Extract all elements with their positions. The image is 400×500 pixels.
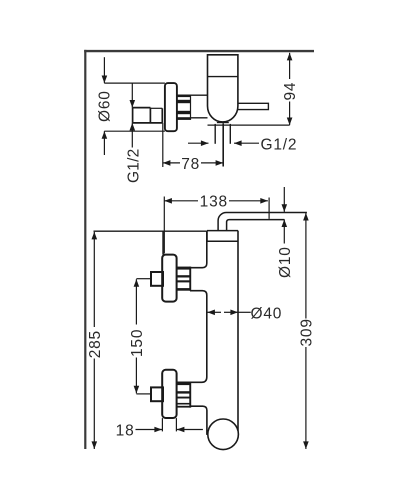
outlet ledge under capsule (top view) — [217, 122, 229, 124]
285 dimension upper arrow — [93, 232, 95, 327]
body top line with 285 extension — [94, 230, 207, 232]
svg-text:Ø60: Ø60 — [97, 90, 114, 122]
309 dimension lower arrow — [305, 347, 307, 449]
body right side outline lower — [190, 406, 207, 435]
G1/2 lower arrow (left, top view) — [131, 123, 133, 148]
94 dimension lower arrow — [289, 102, 291, 126]
lever inner vertical 2 — [161, 108, 163, 123]
G1/2 outlet stub right line (top view) — [229, 124, 231, 144]
lower escutcheon plate (front view) — [162, 370, 176, 418]
150 dimension lower arrow — [135, 358, 137, 394]
94 dimension bottom extension line — [208, 124, 290, 126]
Ø10 dimension upper arrow — [283, 187, 285, 212]
78 dimension line right arrow — [201, 162, 223, 164]
svg-text:18: 18 — [116, 422, 135, 439]
outlet centre extension line (top view) — [222, 123, 224, 166]
column cap line — [207, 240, 238, 242]
lever inner vertical 1 — [149, 108, 151, 123]
shower pipe inner contour — [227, 220, 285, 231]
G1/2 right arrow pair (top view) — [188, 142, 209, 144]
138 dimension right extension line — [268, 198, 270, 219]
150 dimension upper arrow — [135, 279, 137, 324]
body right side outline middle — [177, 291, 207, 383]
138 dimension line left arrow — [164, 200, 198, 202]
lever left end — [132, 108, 134, 123]
lower cartridge ribs (front view) — [177, 382, 191, 408]
285 dimension lower arrow — [93, 359, 95, 450]
end ball circle — [208, 419, 239, 450]
Ø40 dimension arrows — [207, 311, 221, 313]
body right side outline upper (S to cartridge) — [177, 231, 207, 268]
svg-text:138: 138 — [200, 193, 228, 210]
G1/2 outlet stub left line (top view) — [214, 124, 216, 144]
Ø60 extension line bottom — [104, 130, 165, 132]
shower pipe outer contour — [218, 213, 307, 231]
column right edge — [237, 231, 239, 431]
body capsule interior line (top view) — [208, 76, 238, 78]
side pipe (top view) — [238, 103, 268, 109]
94 dimension upper arrow — [289, 53, 291, 79]
78 dimension left extension line — [162, 123, 164, 167]
upper cartridge ribs (front view) — [177, 267, 191, 291]
lever top edge — [133, 107, 151, 109]
18 dimension left-pointing arrow — [177, 429, 203, 431]
frame border left — [84, 50, 86, 449]
svg-text:285: 285 — [87, 330, 104, 358]
svg-text:78: 78 — [181, 156, 200, 173]
cartridge rib side edges (top view) — [177, 95, 208, 120]
svg-text:309: 309 — [298, 318, 315, 346]
Ø60 extension line top — [104, 82, 165, 84]
cartridge ribs (top view) — [177, 95, 191, 120]
body capsule (top view) — [208, 55, 238, 122]
lower knob — [151, 387, 163, 401]
Ø60 dimension lower arrow — [103, 131, 105, 155]
body left edge upper — [162, 231, 164, 254]
column left edge top segment — [206, 231, 208, 242]
138 dimension line right arrow — [229, 200, 268, 202]
svg-text:G1/2: G1/2 — [261, 136, 298, 153]
18 dimension right-pointing arrow — [136, 429, 163, 431]
lever bottom edge — [133, 122, 163, 124]
150 lower stem — [136, 393, 150, 395]
G1/2 upper arrow (left, top view) — [131, 83, 133, 108]
upper escutcheon plate (front view) — [162, 255, 176, 302]
svg-text:Ø10: Ø10 — [277, 246, 294, 278]
svg-text:94: 94 — [282, 82, 299, 101]
309 dimension upper arrow — [305, 213, 307, 319]
upper knob — [151, 272, 163, 286]
frame border top — [84, 50, 314, 52]
svg-text:G1/2: G1/2 — [126, 149, 143, 183]
lever inner top edge — [150, 107, 162, 109]
svg-text:150: 150 — [129, 329, 146, 357]
escutcheon plate (top view) — [165, 83, 177, 131]
Ø40 leader line — [238, 311, 251, 313]
column top edge — [207, 230, 238, 232]
svg-text:Ø40: Ø40 — [251, 306, 283, 323]
18 dimension left extension line — [161, 418, 163, 431]
Ø60 dimension upper arrow — [103, 57, 105, 83]
adapter bottom edge (top view) — [191, 117, 208, 119]
78 dimension line left arrow — [163, 162, 180, 164]
138 dimension left extension line — [163, 197, 165, 254]
adapter top edge (top view) — [191, 94, 208, 96]
Ø10 dimension lower arrow — [283, 219, 285, 243]
18 dimension right extension line — [175, 418, 177, 431]
150 upper stem — [136, 278, 150, 280]
